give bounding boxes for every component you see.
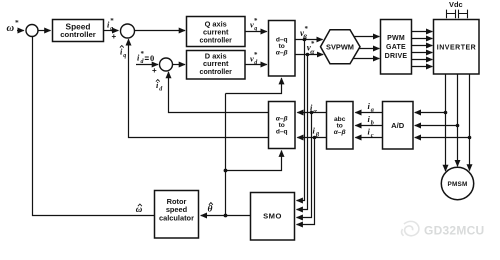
- node ia label: [368, 101, 374, 114]
- node iα label: [310, 102, 317, 115]
- wire abc-αβ to αβ-dq iα: [297, 112, 326, 114]
- wire PWM to inverter 1: [412, 31, 433, 33]
- svg-text:SMO: SMO: [263, 212, 282, 221]
- wire SVPWM to PWM gate drive 3: [353, 58, 379, 60]
- svg-text:INVERTER: INVERTER: [437, 45, 476, 52]
- wire Speed controller to S2: [104, 30, 119, 32]
- junction dot vα branch: [306, 53, 310, 57]
- wire id feedback from αβ-dq to S3: [169, 72, 269, 113]
- svg-text:GATE: GATE: [386, 44, 406, 51]
- svg-text:current: current: [203, 59, 229, 68]
- block α-β to d-q transform: [269, 102, 296, 149]
- wire Q axis controller to dq-αβ: [245, 31, 267, 33]
- svg-text:+: +: [152, 66, 157, 75]
- svg-text:+: +: [112, 32, 117, 41]
- wire A/D to abc ic: [355, 137, 382, 139]
- svg-text:calculator: calculator: [159, 214, 194, 223]
- junction dot phase c: [468, 136, 472, 140]
- svg-text:θ: θ: [208, 205, 213, 215]
- node vd* label: [250, 51, 258, 66]
- summing junction S3: [160, 58, 173, 71]
- wire inverter phase c down to PMSM: [469, 74, 471, 171]
- block PWM GATE DRIVE: [381, 20, 412, 75]
- wire S2 to Q axis controller: [135, 30, 186, 32]
- wire PWM to inverter 6: [412, 66, 433, 68]
- wire A/D to abc ia: [355, 112, 382, 114]
- wire vα branch down to SMO: [297, 55, 308, 210]
- wire PWM to inverter 3: [412, 45, 433, 47]
- wire iq feedback from αβ-dq to S2: [129, 39, 269, 137]
- wire inverter phase b down to PMSM: [457, 74, 459, 166]
- block INVERTER: [434, 20, 480, 75]
- svg-text:*: *: [254, 17, 258, 25]
- svg-text:*: *: [15, 18, 19, 27]
- svg-text:*: *: [110, 17, 114, 25]
- block A/D: [383, 102, 414, 150]
- svg-text:A/D: A/D: [391, 121, 405, 130]
- svg-text:controller: controller: [200, 37, 233, 44]
- svg-text:DRIVE: DRIVE: [385, 53, 408, 60]
- block d-q to α-β transform: [269, 21, 296, 77]
- node îq feedback label: [120, 46, 126, 60]
- svg-text:b: b: [371, 119, 374, 126]
- wire ω feedback to S1: [33, 37, 155, 216]
- wire θ to αβ-dq angle input: [226, 151, 282, 171]
- node ib label: [368, 114, 374, 127]
- svg-text:GD32MCU: GD32MCU: [424, 224, 484, 238]
- svg-text:PMSM: PMSM: [448, 181, 468, 188]
- svg-text:controller: controller: [60, 30, 95, 39]
- node ω estimate label: [136, 204, 143, 214]
- junction dot θ to rotor speed calc: [224, 214, 228, 218]
- svg-text:*: *: [254, 51, 258, 59]
- block SMO observer: [251, 193, 295, 241]
- wire phase b sense to A/D: [415, 125, 458, 127]
- wire id* to S3: [136, 64, 158, 66]
- capacitor Vdc dc-link: [447, 10, 468, 19]
- node id*=0 label: [137, 50, 154, 65]
- wire SVPWM to PWM gate drive 2: [359, 48, 379, 50]
- wire phase a sense to A/D: [415, 112, 446, 114]
- wire PWM to inverter 2: [412, 38, 433, 40]
- node îd feedback label: [156, 80, 163, 93]
- svg-text:controller: controller: [200, 69, 233, 76]
- wire iα branch down to SMO: [297, 113, 312, 218]
- wire vβ branch down to SMO: [297, 40, 305, 201]
- svg-text:β: β: [315, 132, 320, 139]
- junction dot phase a: [444, 111, 448, 115]
- wire vβ* from dq-αβ to SVPWM: [295, 39, 323, 41]
- junction dot vβ branch: [303, 38, 307, 42]
- svg-text:ω: ω: [7, 23, 15, 34]
- wire SVPWM to PWM gate drive 1: [354, 36, 379, 38]
- node vq* label: [250, 17, 258, 32]
- node vα* label: [307, 40, 316, 56]
- wire abc-αβ to αβ-dq iβ: [297, 137, 326, 139]
- svg-text:SVPWM: SVPWM: [326, 43, 354, 52]
- block D axis current controller: [187, 51, 246, 80]
- wire ω* to S1: [17, 30, 24, 32]
- wire D axis controller to dq-αβ: [245, 64, 267, 66]
- svg-text:*: *: [141, 50, 145, 58]
- block Speed controller: [53, 20, 104, 42]
- svg-text:α–β: α–β: [276, 49, 288, 56]
- node iq* label: [107, 17, 114, 32]
- junction dot iβ branch: [313, 136, 317, 140]
- motor PMSM: [441, 167, 473, 199]
- junction dot θ branch: [224, 169, 228, 173]
- summing junction S1: [26, 25, 38, 37]
- svg-text:q: q: [123, 53, 126, 59]
- svg-text:c: c: [371, 132, 374, 139]
- svg-text:a: a: [371, 106, 374, 113]
- wire SMO θ output to rotor speed calculator: [201, 215, 251, 217]
- svg-text:d–q: d–q: [276, 129, 288, 136]
- block abc to α-β transform: [327, 102, 354, 150]
- wire A/D to abc ib: [355, 125, 382, 127]
- wire PWM to inverter 4: [412, 52, 433, 54]
- svg-text:PWM: PWM: [387, 35, 405, 42]
- block Q axis current controller: [187, 17, 246, 47]
- svg-text:α–β: α–β: [334, 129, 346, 136]
- junction dot iα branch: [310, 111, 314, 115]
- wire iβ branch down to SMO: [297, 138, 315, 225]
- node vβ* label: [300, 25, 309, 41]
- wire PWM to inverter 5: [412, 59, 433, 61]
- svg-text:α: α: [313, 108, 317, 115]
- block Rotor speed calculator: [155, 191, 199, 239]
- svg-text:0: 0: [150, 53, 154, 63]
- wire vα* from dq-αβ to SVPWM: [295, 54, 323, 56]
- svg-text:Vdc: Vdc: [449, 0, 463, 9]
- watermark logo gecko: [402, 221, 419, 235]
- summing junction S2: [121, 24, 135, 38]
- block SVPWM hexagon: [321, 30, 361, 64]
- wire θ trunk vertical: [225, 94, 227, 216]
- wire θ to dq-αβ angle input: [226, 78, 282, 93]
- wire inverter phase a down to PMSM: [445, 74, 447, 171]
- node ic label: [368, 126, 374, 139]
- svg-text:current: current: [203, 27, 229, 36]
- wire S3 to D axis controller: [173, 64, 186, 66]
- wire S1 to Speed controller: [38, 30, 51, 32]
- node θ estimate label: [208, 203, 213, 215]
- node ω* speed reference label: [7, 18, 20, 34]
- junction dot phase b: [456, 124, 460, 128]
- wire phase c sense to A/D: [415, 137, 470, 139]
- node iβ label: [313, 125, 320, 138]
